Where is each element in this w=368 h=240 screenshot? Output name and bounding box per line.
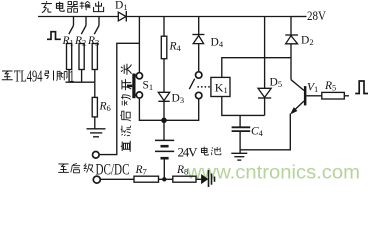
svg-text:D3: D3 (172, 93, 185, 106)
svg-text:D1: D1 (115, 0, 128, 12)
svg-text:R8: R8 (176, 164, 188, 177)
svg-text:28V: 28V (307, 8, 327, 23)
svg-text:R3: R3 (87, 35, 99, 48)
svg-text:D5: D5 (270, 77, 283, 90)
svg-text:R2: R2 (74, 35, 86, 48)
svg-text:24V: 24V (178, 145, 199, 160)
svg-text:1: 1 (69, 67, 75, 86)
svg-text:R1: R1 (62, 35, 74, 48)
svg-text:R7: R7 (135, 164, 147, 177)
svg-text:D4: D4 (211, 37, 224, 50)
svg-text:R6: R6 (99, 101, 111, 114)
svg-text:R4: R4 (169, 41, 182, 54)
svg-text:S1: S1 (143, 80, 154, 93)
svg-text:V1: V1 (307, 82, 318, 95)
svg-text:C4: C4 (251, 126, 264, 139)
svg-text:TL494: TL494 (14, 67, 43, 86)
svg-text:DC/DC: DC/DC (96, 161, 130, 178)
svg-text:D2: D2 (301, 35, 314, 48)
svg-text:R5: R5 (324, 80, 336, 93)
